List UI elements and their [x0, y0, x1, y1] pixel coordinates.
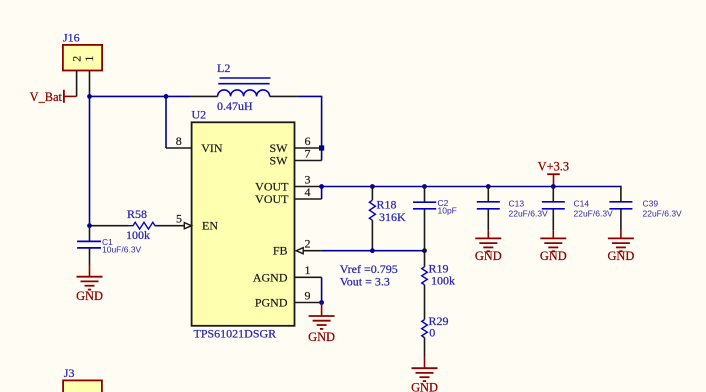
V_Bat port tick: [63, 90, 65, 103]
svg-text:1: 1: [82, 56, 96, 62]
node junction FB at C2/R19: [422, 248, 427, 253]
power bar V+3.3: [547, 173, 560, 175]
power stem V+3.3: [553, 174, 555, 186]
svg-text:GND: GND: [607, 249, 634, 263]
node junction rail at C14: [551, 184, 556, 189]
svg-text:GND: GND: [475, 249, 502, 263]
inductor L2 core bar upper: [220, 77, 271, 79]
resistor R58 body: [129, 222, 156, 229]
resistor R19 bottom lead / wire to R29: [424, 285, 426, 320]
ground symbol C13: [475, 238, 501, 251]
resistor R19 top lead: [424, 251, 426, 267]
node junction at C1/R58: [87, 223, 92, 228]
svg-text:L2: L2: [217, 61, 230, 75]
resistor R18 bottom lead: [371, 220, 373, 251]
wire L2 to SW pins: [298, 96, 322, 160]
ground symbol U2: [309, 316, 335, 329]
svg-text:10pF: 10pF: [438, 205, 457, 215]
resistor R19 body: [422, 267, 428, 285]
svg-text:8: 8: [176, 134, 182, 148]
capacitor C1 top lead: [89, 226, 91, 242]
ground stem C1: [89, 265, 91, 277]
inductor L2 right lead: [270, 95, 298, 97]
capacitor C1 plates: [77, 241, 101, 248]
svg-text:TPS61021DSGR: TPS61021DSGR: [194, 327, 277, 341]
resistor R18 body: [369, 200, 375, 220]
svg-text:0: 0: [429, 326, 435, 340]
node junction rail at C13: [486, 184, 491, 189]
wire FB net: [321, 250, 424, 252]
pin 6 SW lead: [295, 147, 322, 149]
capacitor C39 top lead: [620, 186, 622, 202]
node junction at SW pin 6 (square): [319, 145, 324, 150]
svg-text:PGND: PGND: [255, 296, 288, 310]
svg-text:7: 7: [305, 146, 311, 160]
pin 2 FB arrow: [296, 248, 303, 254]
pin 4 VOUT lead: [295, 198, 322, 200]
capacitor C13 plates: [477, 202, 500, 209]
svg-text:Vout = 3.3: Vout = 3.3: [340, 275, 390, 289]
ground stem R29: [424, 357, 426, 369]
svg-text:GND: GND: [411, 381, 438, 392]
svg-text:100k: 100k: [126, 228, 150, 242]
IC U2 body: [192, 122, 295, 325]
svg-text:316K: 316K: [379, 210, 406, 224]
capacitor C14 plates: [542, 202, 565, 209]
svg-text:100k: 100k: [431, 273, 455, 287]
svg-text:4: 4: [305, 185, 311, 199]
pin 3 VOUT lead: [295, 186, 322, 188]
ground stem U2: [321, 303, 323, 317]
pin 9 PGND lead: [295, 302, 322, 304]
ground stem C14: [552, 230, 554, 238]
ground symbol C39: [608, 238, 634, 251]
inductor L2 core bar lower: [218, 83, 269, 85]
ground stem C39: [620, 230, 622, 238]
node junction rail at C2: [422, 184, 427, 189]
ground symbol C1: [77, 277, 103, 290]
svg-text:C14: C14: [574, 199, 590, 209]
svg-text:0.47uH: 0.47uH: [217, 99, 253, 113]
capacitor C39 bottom lead: [620, 209, 622, 230]
svg-text:VOUT: VOUT: [255, 192, 289, 206]
node junction FB at R18: [370, 248, 375, 253]
svg-text:SW: SW: [270, 154, 289, 168]
svg-text:GND: GND: [76, 289, 103, 303]
svg-text:EN: EN: [202, 219, 218, 233]
svg-text:C39: C39: [643, 199, 659, 209]
resistor R29 bottom lead: [424, 338, 426, 357]
capacitor C1 bottom lead: [89, 248, 91, 265]
wire J16 pin1 to VIN branch: [90, 95, 167, 97]
pin 8 VIN lead: [166, 147, 192, 149]
capacitor C13 top lead: [487, 187, 489, 202]
connector J3 body: [63, 380, 102, 392]
pin 7 SW lead: [295, 160, 322, 162]
svg-text:FB: FB: [273, 244, 288, 258]
resistor R18 top lead: [371, 187, 373, 201]
svg-text:GND: GND: [308, 330, 335, 344]
pin 1 AGND lead: [295, 276, 322, 278]
wire battery branch vertical: [89, 96, 91, 225]
node junction at VOUT pin3: [319, 184, 324, 189]
svg-text:J3: J3: [64, 366, 75, 380]
capacitor C14 bottom lead: [552, 209, 554, 230]
wire V_Bat to J16 pin2: [64, 95, 77, 97]
svg-text:AGND: AGND: [253, 270, 288, 284]
svg-text:C13: C13: [509, 199, 525, 209]
svg-text:R58: R58: [127, 207, 147, 221]
svg-text:J16: J16: [63, 31, 80, 45]
node junction at PGND: [319, 300, 324, 305]
svg-text:1: 1: [305, 263, 311, 277]
wire VOUT rail: [322, 186, 621, 188]
svg-text:VIN: VIN: [201, 141, 223, 155]
node junction at J16 pin1: [87, 94, 92, 99]
capacitor C14 top lead: [552, 187, 554, 202]
inductor L2 winding: [218, 90, 270, 96]
ground stem C13: [487, 230, 489, 238]
svg-text:22uF/6.3V: 22uF/6.3V: [509, 209, 549, 219]
capacitor C2 plates: [413, 202, 436, 209]
svg-text:22uF/6.3V: 22uF/6.3V: [643, 209, 683, 219]
capacitor C13 bottom lead: [487, 209, 489, 230]
capacitor C39 plates: [609, 202, 632, 209]
svg-text:V_Bat: V_Bat: [30, 90, 63, 104]
svg-text:V+3.3: V+3.3: [538, 159, 569, 173]
J16 pin 2 lead: [76, 71, 78, 97]
svg-text:GND: GND: [540, 249, 567, 263]
inductor L2 left lead: [190, 95, 218, 97]
ground symbol R29: [412, 368, 438, 381]
svg-text:5: 5: [176, 212, 182, 226]
svg-text:U2: U2: [192, 108, 207, 122]
svg-text:2: 2: [305, 237, 311, 251]
svg-text:10uF/6.3V: 10uF/6.3V: [102, 244, 142, 254]
pin 5 EN lead: [155, 225, 185, 227]
wire VIN branch vertical: [165, 96, 167, 148]
capacitor C2 top lead: [424, 187, 426, 203]
ground symbol C14: [540, 238, 566, 251]
pin 2 FB lead: [304, 250, 322, 252]
connector J16 body: [63, 45, 102, 71]
svg-text:9: 9: [305, 288, 311, 302]
node junction VIN branch: [164, 94, 169, 99]
J16 pin 1 lead: [89, 71, 91, 97]
resistor R29 body: [422, 320, 428, 338]
wire VOUT pin3-pin4 tie: [321, 187, 323, 200]
svg-text:22uF/6.3V: 22uF/6.3V: [574, 209, 614, 219]
wire EN row from battery branch: [90, 225, 129, 227]
wire AGND to PGND tie: [321, 277, 323, 302]
wire to L2 left lead: [166, 95, 190, 97]
node junction rail at R18: [370, 184, 375, 189]
capacitor C2 bottom lead: [424, 209, 426, 251]
pin 5 EN input arrow: [184, 223, 191, 229]
